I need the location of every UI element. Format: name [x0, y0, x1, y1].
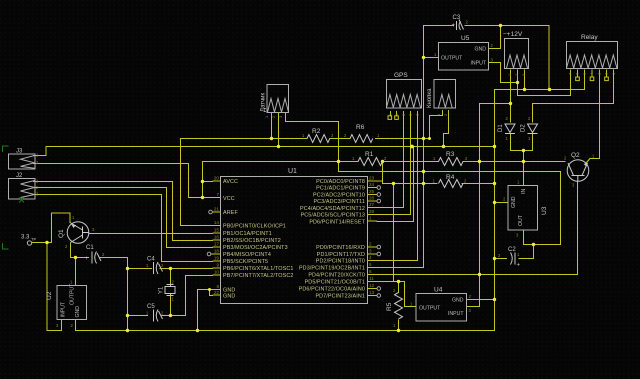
svg-text:PC1/ADC1/PCINT9: PC1/ADC1/PCINT9	[316, 186, 365, 192]
wire C5 left	[128, 315, 148, 317]
wire U4 GND to x=494	[467, 299, 495, 301]
svg-text:1: 1	[369, 216, 372, 221]
svg-text:Relay: Relay	[581, 34, 598, 41]
svg-text:TP: TP	[31, 237, 36, 242]
regulator U2 box vertical	[57, 286, 87, 320]
wire T1 row to R5 and U4	[377, 282, 405, 293]
svg-text:PB1/OC1A/PCINT1: PB1/OC1A/PCINT1	[223, 231, 272, 237]
wire Relay pin7 to D2	[533, 70, 614, 122]
svg-text:PC0/ADC0/PCINT8: PC0/ADC0/PCINT8	[316, 179, 365, 185]
wire R2 R6 line	[181, 138, 430, 140]
wire R2 line left corner down to PB0	[181, 139, 213, 226]
wire U3 OUT down right and up	[524, 172, 561, 245]
U1 right pin stubs	[368, 181, 378, 296]
resistor R1	[358, 158, 383, 166]
wire C3 right to corner	[465, 26, 549, 90]
wire vertical C3/U5.OUT/R6/TXD at x=424	[377, 26, 424, 268]
wire +12V pin2 down to Relay pin1	[518, 70, 571, 96]
wire Y1 bottom	[170, 294, 172, 316]
IC U1 body	[221, 177, 368, 304]
svg-text:R4: R4	[446, 174, 455, 181]
no-connect circle PB4 pin18	[207, 252, 211, 256]
svg-text:R3: R3	[446, 151, 455, 158]
wire U1 GND pins to rail	[198, 290, 213, 331]
green X mark under J2	[19, 198, 24, 203]
U1 right pin names	[299, 179, 366, 300]
wire Y1 bottom up to U1 XTAL2	[186, 276, 213, 316]
wire C5 right to Y1 bottom	[162, 315, 186, 317]
svg-text:U3: U3	[541, 206, 548, 215]
wire C2 right plate to node	[519, 258, 534, 260]
wire riser from R4 line down to R5 row	[393, 184, 395, 282]
svg-text:PB2/SS/OC1B/PCINT2: PB2/SS/OC1B/PCINT2	[223, 238, 281, 244]
wire Relay pin3 down	[584, 70, 586, 90]
connector Knopka	[434, 80, 456, 109]
svg-text:23: 23	[369, 176, 375, 181]
wire U3 GND to x=494	[495, 202, 509, 204]
svg-text:R1: R1	[365, 151, 374, 158]
wire C3 net top rail	[424, 25, 454, 27]
svg-text:PD0/PCINT16/RXD: PD0/PCINT16/RXD	[316, 245, 365, 251]
wire Datchik pin3 down right and down	[286, 113, 339, 172]
svg-text:3.3: 3.3	[21, 235, 30, 241]
capacitor C1 polarized	[92, 252, 101, 264]
svg-text:AREF: AREF	[223, 210, 238, 216]
svg-text:OUTPUT: OUTPUT	[419, 306, 441, 312]
wire D1D2 junction down to U3 IN	[523, 151, 525, 186]
svg-text:PC5/ADC5/SCL/PCINT13: PC5/ADC5/SCL/PCINT13	[301, 213, 365, 219]
svg-text:PB6/PCINT6/XTAL1/TOSC1: PB6/PCINT6/XTAL1/TOSC1	[223, 266, 293, 272]
svg-text:GND: GND	[452, 298, 464, 304]
wire +12V pin3 down	[524, 70, 526, 90]
svg-text:21: 21	[214, 207, 220, 212]
no-connect circle pin3	[377, 252, 381, 256]
resistor R2	[307, 135, 330, 143]
svg-text:16: 16	[214, 235, 220, 240]
svg-text:AVCC: AVCC	[223, 179, 238, 185]
wire GPS pin5 to RXD	[377, 112, 418, 261]
svg-text:6: 6	[369, 269, 372, 274]
svg-text:2: 2	[369, 242, 372, 247]
svg-text:OUTPUT: OUTPUT	[441, 56, 463, 62]
svg-text:U1: U1	[288, 168, 297, 175]
wire GPS pin1 stub	[390, 112, 392, 117]
crystal Y1	[165, 285, 175, 296]
svg-text:Кнопка: Кнопка	[427, 88, 433, 108]
wire D1 D2 cathodes join	[511, 134, 533, 151]
wire Q2 emitter down and left	[377, 181, 578, 275]
svg-text:10: 10	[214, 270, 220, 275]
wire TP riser to Q1 base	[52, 213, 71, 243]
svg-text:INPUT: INPUT	[61, 301, 67, 317]
wire Knopka pin1 to R6 line	[430, 111, 443, 139]
resistor R4	[439, 180, 464, 188]
connector Relay	[567, 42, 618, 69]
svg-text:Q2: Q2	[571, 152, 580, 159]
svg-text:17: 17	[214, 242, 220, 247]
wire U5 INPUT to +12V pin2	[489, 63, 518, 83]
svg-text:PD1/PCINT17/TXD: PD1/PCINT17/TXD	[317, 252, 365, 258]
wire C2 left to x=494	[495, 258, 507, 260]
svg-text:IN: IN	[521, 189, 527, 194]
wire Relay NC stubs	[578, 70, 607, 77]
capacitor C2 polarized	[511, 253, 516, 265]
wire U2 INPUT down left and up	[47, 243, 62, 331]
svg-text:R2: R2	[312, 128, 321, 135]
regulator U5 box	[439, 43, 489, 71]
svg-text:GND: GND	[223, 294, 235, 300]
wire C4 right to U1 XTAL1	[160, 268, 213, 270]
svg-text:9: 9	[216, 263, 219, 268]
svg-text:+: +	[452, 23, 456, 29]
svg-text:J3: J3	[16, 149, 23, 155]
wire RESET riser	[377, 147, 414, 222]
svg-text:20: 20	[214, 176, 220, 181]
svg-text:PB5/SCK/PCINT5: PB5/SCK/PCINT5	[223, 259, 268, 265]
transistor Q2	[567, 160, 589, 182]
U1 left pin names	[223, 179, 293, 300]
svg-text:GND: GND	[511, 196, 517, 208]
U1 pin numbers right	[369, 176, 375, 296]
wire PC0 row to R4	[383, 183, 438, 185]
wire GPS pin2 stub	[396, 112, 398, 117]
svg-text:7: 7	[216, 192, 219, 197]
svg-text:PB3/MOSI/OC2A/PCINT3: PB3/MOSI/OC2A/PCINT3	[223, 245, 288, 251]
connector +12V	[505, 39, 529, 69]
connector J2	[9, 179, 36, 200]
wire U4 OUTPUT riser	[405, 282, 417, 307]
svg-text:C5: C5	[147, 304, 155, 310]
GPS no-connect square pads	[388, 77, 608, 119]
wire U2 GND down to rail	[75, 320, 77, 331]
wire GPS pin3 to SDA pin27	[377, 112, 404, 208]
wire PC0 branch from R1 line	[377, 162, 383, 184]
svg-text:PD6/PCINT22/OC0A/AIN0: PD6/PCINT22/OC0A/AIN0	[299, 287, 365, 293]
regulator U3 box vertical	[508, 186, 538, 231]
green selection bracket bottom	[3, 243, 9, 249]
svg-text:INPUT: INPUT	[470, 61, 486, 67]
green selection bracket top	[3, 146, 9, 152]
svg-text:C2: C2	[508, 247, 516, 253]
svg-text:D1: D1	[498, 124, 504, 132]
svg-text:U2: U2	[46, 291, 53, 300]
svg-text:OUTPUT: OUTPUT	[70, 283, 76, 305]
wire C4 left	[128, 268, 152, 270]
svg-text:PB7/PCINT7/XTAL2/TOSC2: PB7/PCINT7/XTAL2/TOSC2	[223, 273, 293, 279]
svg-text:PC3/ADC3/PCINT11: PC3/ADC3/PCINT11	[313, 199, 365, 205]
no-connect circle pin2	[377, 245, 381, 249]
svg-text:26: 26	[369, 196, 375, 201]
svg-text:Q1: Q1	[58, 229, 65, 238]
wire Q1 collector to U1 PB1	[90, 233, 213, 235]
resistor R3	[439, 158, 464, 166]
svg-text:U5: U5	[461, 35, 470, 42]
wire Datchik pin1 down	[271, 113, 273, 139]
svg-text:PB0/PCINT0/CLKO/ICP1: PB0/PCINT0/CLKO/ICP1	[223, 224, 286, 230]
wire U5 OUTPUT stub left	[424, 57, 439, 59]
wire Q1 emitter down	[71, 243, 89, 258]
capacitor C3 polarized	[457, 20, 464, 31]
wire y=103 line	[480, 103, 511, 105]
svg-text:GND: GND	[474, 47, 486, 53]
U1 left pin stubs	[211, 181, 221, 295]
Relay no-connect square pads	[576, 77, 580, 81]
svg-text:22: 22	[214, 290, 220, 295]
transistor Q1	[67, 222, 89, 244]
svg-text:C1: C1	[86, 245, 94, 251]
svg-text:28: 28	[369, 209, 375, 214]
wire long y=147 line	[46, 146, 494, 148]
wire Q2 collector lead	[587, 159, 591, 163]
regulator U4 box	[416, 294, 467, 322]
wire AVCC VCC riser	[202, 162, 204, 197]
svg-text:−+12V: −+12V	[503, 31, 523, 38]
no-connect circles right pins 24 25 26	[377, 186, 381, 190]
svg-text:PD6/PCINT14/RESET: PD6/PCINT14/RESET	[309, 220, 365, 226]
svg-text:R5: R5	[386, 302, 393, 311]
svg-text:VCC: VCC	[223, 196, 235, 202]
svg-text:GPS: GPS	[394, 72, 408, 79]
wire R4 right to x=494	[462, 183, 495, 185]
svg-text:PD7/PCINT23/AIN1: PD7/PCINT23/AIN1	[315, 294, 365, 300]
U1 pin numbers left	[214, 176, 220, 296]
svg-text:U4: U4	[434, 287, 443, 294]
svg-text:INPUT: INPUT	[448, 311, 464, 317]
no-connect circle AREF	[209, 210, 213, 214]
wire R1 R3 Q2base line	[203, 161, 566, 163]
wire horizontal rail y=89.5	[495, 89, 585, 91]
svg-text:27: 27	[369, 202, 375, 207]
resistor R5 vertical	[395, 293, 403, 319]
no-connect circle pin12	[377, 287, 381, 291]
svg-text:J2: J2	[16, 173, 23, 179]
wire y=171.5 long line	[339, 171, 561, 173]
svg-text:12: 12	[369, 283, 375, 288]
svg-text:24: 24	[369, 182, 375, 187]
connector GPS	[387, 80, 422, 109]
wire U5 GND to top rail	[489, 26, 501, 49]
svg-text:+: +	[517, 263, 521, 269]
wire long vertical x=479 to U4 input	[467, 104, 480, 307]
svg-text:PD2/PCINT18/INT0: PD2/PCINT18/INT0	[316, 259, 365, 265]
svg-text:GND: GND	[75, 306, 81, 318]
wire AVCC stub	[203, 181, 213, 183]
svg-text:C3: C3	[453, 15, 461, 21]
svg-text:PD3/PCINT19/OC2B/INT1: PD3/PCINT19/OC2B/INT1	[299, 266, 365, 272]
wire J2 pin1 to PB2	[34, 182, 213, 241]
svg-text:PD4/PCINT20/XCK/T0: PD4/PCINT20/XCK/T0	[308, 273, 365, 279]
wire C2 plus to U3 OUT node	[533, 245, 535, 259]
svg-text:8: 8	[216, 284, 219, 289]
svg-text:PC4/ADC4/SDA/PCINT12: PC4/ADC4/SDA/PCINT12	[300, 206, 365, 212]
svg-text:Y1: Y1	[159, 286, 165, 294]
wire J2 pin2 to PB3	[34, 188, 213, 248]
wire +12V pin1 down to D1	[510, 70, 512, 122]
svg-text:4: 4	[369, 255, 372, 260]
wire Knopka pin2 to PD4	[444, 111, 449, 147]
svg-text:Датчик: Датчик	[261, 93, 267, 112]
svg-text:PC2/ADC2/PCINT10: PC2/ADC2/PCINT10	[313, 193, 365, 199]
wire Y1 top	[170, 269, 172, 287]
svg-text:+: +	[85, 256, 89, 262]
diode D1	[505, 124, 515, 134]
wire U1 GND22 jog	[210, 290, 213, 296]
capacitor C5	[154, 310, 163, 322]
resistor R6	[350, 135, 373, 143]
wire J3 pin2 to VCC	[34, 164, 213, 198]
diode D2	[528, 124, 538, 134]
test point 3.3	[27, 241, 31, 245]
svg-text:14: 14	[214, 220, 220, 225]
connector J3	[9, 154, 36, 169]
wire long vertical x=494	[494, 90, 496, 331]
wire emitter node to U2 OUTPUT	[75, 258, 77, 286]
no-connect circle pin13	[377, 294, 381, 298]
svg-text:PB4/MISO/PCINT4: PB4/MISO/PCINT4	[223, 252, 271, 258]
capacitor C4	[154, 262, 163, 274]
svg-text:18: 18	[214, 249, 220, 254]
connector Datchik	[267, 85, 289, 113]
svg-text:3: 3	[369, 249, 372, 254]
svg-text:25: 25	[369, 189, 375, 194]
svg-text:C4: C4	[147, 257, 155, 263]
wire GPS pin4 to SCL pin28	[377, 112, 411, 215]
svg-text:13: 13	[369, 290, 375, 295]
svg-text:PD5/PCINT21/OC0B/T1: PD5/PCINT21/OC0B/T1	[305, 280, 365, 286]
wire J3 pin1 up to y=147 line	[34, 147, 47, 156]
wire ground rail bottom	[76, 330, 495, 332]
svg-text:15: 15	[214, 228, 220, 233]
wire Datchik pin2 down	[278, 113, 280, 147]
svg-text:OUT: OUT	[518, 214, 524, 226]
wire TP 3.3 line	[32, 242, 52, 244]
svg-text:19: 19	[214, 256, 220, 261]
svg-text:D2: D2	[521, 124, 527, 132]
wire Relay pin5 down to Q2 collector	[590, 70, 600, 159]
svg-text:11: 11	[369, 276, 374, 281]
svg-text:5: 5	[369, 262, 372, 267]
wire J2 pin3 to PB5	[34, 195, 213, 262]
wire C1 right to GND riser	[100, 258, 128, 331]
svg-text:R6: R6	[356, 124, 365, 131]
wire R5 bottom to rail	[398, 320, 400, 331]
